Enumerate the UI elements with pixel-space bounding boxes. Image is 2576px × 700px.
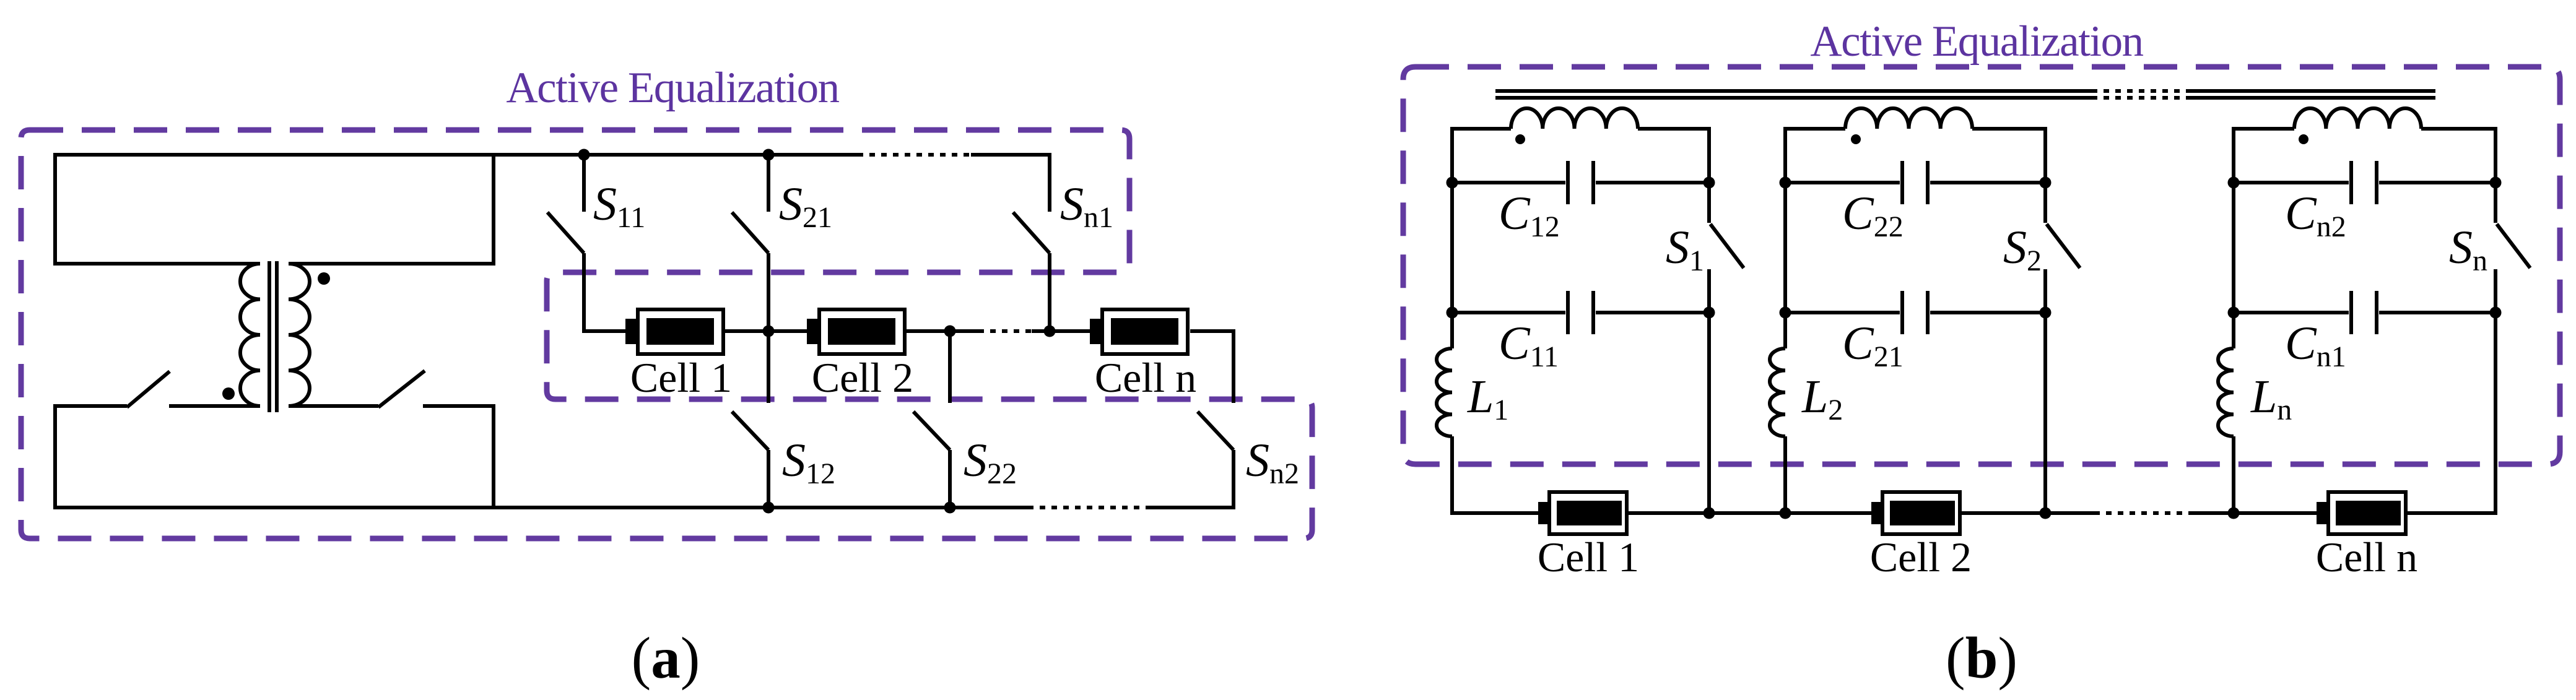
wire Cell n to Sn2 column (1190, 331, 1234, 403)
cell Cell n battery symbol (1090, 309, 1188, 354)
capacitor C22 right wire (1930, 181, 2045, 184)
wire magnetic bus dotted break lower (2092, 96, 2190, 100)
wire module-n left rail bottom to cell row (2232, 436, 2235, 513)
switch secondary-side blade (378, 371, 425, 407)
transformer secondary polarity dot (318, 272, 330, 285)
capacitor Cn2 right wire (2379, 181, 2495, 184)
cell Cell 1 battery symbol (625, 309, 723, 354)
switch S21 upper stub (767, 155, 770, 212)
capacitor C12 plates (1568, 161, 1593, 204)
switch Sn blade (2497, 224, 2530, 268)
inductor winding W1 (module 1) (1511, 108, 1638, 129)
switch primary-side blade (127, 371, 170, 407)
switch S21 blade (732, 212, 768, 253)
svg-text:(b): (b) (1946, 625, 2017, 691)
node module2 right C21 (2040, 307, 2052, 319)
wire Sn1 column down to cell row (1048, 253, 1051, 331)
wire bottom bus right segment (1147, 506, 1234, 509)
node junction cell row S22 (944, 326, 956, 337)
wire S21 column down to S12 contact (767, 253, 770, 403)
wire top bus right segment to Sn1 corner (971, 155, 1050, 212)
wire module1 right rail top (1638, 129, 1709, 223)
node cell row module2 right (2040, 508, 2052, 519)
svg-text:Cell 2: Cell 2 (812, 354, 913, 401)
capacitor C21 plates (1902, 291, 1928, 334)
node junction top bus S11 (578, 149, 590, 161)
cell Cell 1 battery symbol (fig b) (1538, 492, 1627, 534)
node module-n left Cn1 (2228, 307, 2240, 319)
wire cell row dotted segment (978, 329, 1032, 333)
dashed boundary (Active Equalization region, fig a) (21, 130, 1312, 538)
node junction cell row Sn1 (1044, 326, 1056, 337)
wire top bus dotted segment (858, 153, 971, 157)
svg-text:Cell n: Cell n (1095, 354, 1196, 401)
wire magnetic bus right upper line (2190, 89, 2435, 93)
capacitor C11 right wire (1596, 311, 1709, 314)
capacitor C21 right wire (1930, 311, 2045, 314)
wire dotted break to Cell n (fig b) (2192, 511, 2317, 515)
wire bottom bus dotted segment (1028, 506, 1147, 509)
capacitor C11 left wire (1452, 311, 1565, 314)
node junction bottom bus S12 (763, 502, 775, 514)
wire module-n right rail top (2421, 129, 2495, 223)
switch S12 upper handled by S21 column; blade (732, 412, 768, 450)
wire module1 left rail top (1452, 129, 1511, 348)
wire Cell2 to dotted break (fig b) (1962, 511, 2094, 515)
wire module1 right rail lower (1707, 269, 1711, 513)
capacitor Cn2 left wire (2234, 181, 2349, 184)
svg-text:Cell 1: Cell 1 (630, 354, 732, 401)
transformer T1 core (269, 261, 277, 412)
svg-text:Cell 1: Cell 1 (1538, 534, 1639, 581)
switch Sn1 blade (1013, 212, 1050, 253)
wire Sn2 to bottom bus (1147, 450, 1234, 508)
capacitor C11 plates (1568, 291, 1593, 334)
switch Sn2 blade (1198, 412, 1234, 450)
svg-text:Active Equalization: Active Equalization (506, 64, 839, 112)
node module1 right C12 (1704, 177, 1715, 189)
node module1 right C11 (1704, 307, 1715, 319)
wire secondary bottom (289, 404, 378, 408)
node cell row module-n left (2228, 508, 2240, 519)
wire module-n left rail top (2234, 129, 2294, 348)
capacitor Cn1 plates (2351, 291, 2377, 334)
wire cell row dotted segment (fig b) (2094, 511, 2192, 515)
wire module2 right rail top (1972, 129, 2045, 223)
wire module2 left rail bottom to cell row (1783, 436, 1787, 513)
switch S22 upper contact (948, 331, 952, 403)
svg-text:Cell 2: Cell 2 (1870, 534, 1972, 581)
switch S1 blade (1710, 224, 1744, 268)
node junction bottom bus S22 (944, 502, 956, 514)
switch S11 blade (547, 212, 584, 253)
transformer T1 secondary winding (289, 264, 310, 406)
node module2 right C22 (2040, 177, 2052, 189)
capacitor Cn1 right wire (2379, 311, 2495, 314)
dashed boundary (Active Equalization region, fig b) (1403, 67, 2560, 464)
switch S2 blade (2047, 224, 2080, 268)
node junction top bus S21 (763, 149, 775, 161)
wire module2 right rail lower (2043, 269, 2047, 513)
winding W1 polarity dot (1515, 134, 1525, 144)
svg-text:(a): (a) (632, 625, 700, 691)
wire Cell 1 to Cell 2 (725, 329, 807, 333)
wire module2 left rail top (1785, 129, 1845, 348)
capacitor C22 plates (1902, 161, 1928, 204)
inductor L1 (1437, 348, 1452, 436)
wire module1 left rail bottom to cell row (1452, 436, 1538, 513)
wire primary switch to winding (169, 404, 260, 408)
inductor winding W2 (module 2) (1845, 108, 1972, 129)
switch S22 blade (913, 412, 950, 450)
capacitor C22 left wire (1785, 181, 1900, 184)
wire S22 to bottom bus (948, 450, 952, 508)
inductor winding Wn (module n) (2294, 108, 2421, 129)
node module1 left C11 (1447, 307, 1458, 319)
cell Cell 2 battery symbol (fig b) (1871, 492, 1960, 534)
node module-n right Cn2 (2490, 177, 2502, 189)
wire S12 to bottom bus (767, 450, 770, 508)
cell Cell 2 battery symbol (807, 309, 905, 354)
wire magnetic bus dotted break upper (2092, 89, 2190, 93)
capacitor C12 left wire (1452, 181, 1565, 184)
winding W2 polarity dot (1851, 134, 1861, 144)
transformer primary polarity dot (222, 387, 235, 400)
wire shared magnetic bus lower line (1495, 96, 2092, 100)
wire Cell1 to Cell2 (fig b) (1629, 511, 1871, 515)
node junction cell row S21/S12 (763, 326, 775, 337)
node module-n left Cn2 (2228, 177, 2240, 189)
cell Cell n battery symbol (fig b) (2317, 492, 2406, 534)
switch S11 upper stub (582, 155, 586, 212)
winding Wn polarity dot (2299, 134, 2308, 144)
wire Cell 2 to dotted break (907, 329, 978, 333)
inductor L2 (1770, 348, 1785, 436)
capacitor C21 left wire (1785, 311, 1900, 314)
wire primary bottom + left lower rail + bottom bus (55, 406, 1028, 508)
node module1 left C12 (1447, 177, 1458, 189)
node cell row module2 left (1780, 508, 1791, 519)
node module2 left C21 (1780, 307, 1791, 319)
wire secondary switch to bottom bus (423, 406, 494, 508)
capacitor Cn2 plates (2351, 161, 2377, 204)
svg-text:Cell n: Cell n (2316, 534, 2417, 581)
svg-text:Active Equalization: Active Equalization (1810, 17, 2143, 66)
wire magnetic bus right lower line (2190, 96, 2435, 100)
inductor Ln (2218, 348, 2234, 436)
wire shared magnetic bus upper line (1495, 89, 2092, 93)
node module-n right Cn1 (2490, 307, 2502, 319)
wire S11 to Cell 1 (584, 253, 625, 331)
node cell row module1 right (1704, 508, 1715, 519)
capacitor C12 right wire (1596, 181, 1709, 184)
wire top bus + left rail + primary top wire (55, 155, 858, 264)
wire module-n right rail lower to cell n (2408, 269, 2495, 513)
transformer T1 primary winding (240, 264, 260, 406)
capacitor Cn1 left wire (2234, 311, 2349, 314)
wire secondary top to top bus (289, 155, 494, 264)
node module2 left C22 (1780, 177, 1791, 189)
wire dotted break to Cell n (1032, 329, 1090, 333)
